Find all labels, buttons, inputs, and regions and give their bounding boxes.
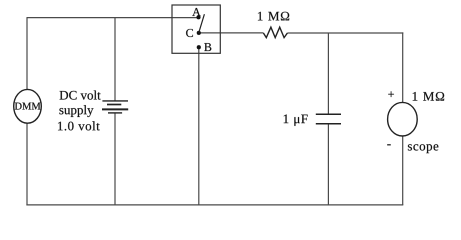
wire left vertical lower segment [26,123,28,205]
label minus polarity [387,143,390,146]
battery V1 plate long [102,108,128,110]
wire scope branch lower [402,136,404,205]
switch terminal A dot [197,15,201,19]
wire scope branch upper [402,32,404,103]
scope input ellipse [388,102,418,136]
meter DMM [14,89,42,123]
battery V1 plate short [107,104,121,106]
capacitor C1 plate top [316,113,341,115]
switch S1 enclosure box [172,5,220,53]
wire battery vertical lower [114,113,116,205]
battery V1 plate long top [102,100,128,102]
battery V1 plate short bottom [108,112,122,114]
label 1 uF [284,115,308,126]
label plus polarity [388,91,394,97]
wire from switch terminal B down to bottom rail [198,47,200,205]
switch terminal B dot [197,45,201,49]
resistor R1 zigzag [263,27,287,37]
wire from resistor to top-right corner [287,32,403,34]
wire left vertical upper segment [26,17,28,90]
label C [186,29,193,37]
wire from switch terminal C to resistor [199,32,264,34]
capacitor C1 plate bottom [316,123,341,125]
label DC volt supply 1.0 volt [60,90,101,99]
switch terminal C dot [197,31,201,35]
wire top-left horizontal rail [27,17,198,19]
label scope [408,144,438,153]
switch arm from C toward A [199,14,205,33]
label DMM [15,103,41,110]
wire capacitor branch upper [327,33,329,114]
wire capacitor branch lower [327,124,329,205]
label B [204,43,211,51]
label 1 Mohm resistor [258,12,289,21]
label 1 Mohm scope [413,92,444,101]
wire bottom rail [26,204,403,206]
wire battery vertical upper [114,18,116,101]
label A [192,8,200,16]
